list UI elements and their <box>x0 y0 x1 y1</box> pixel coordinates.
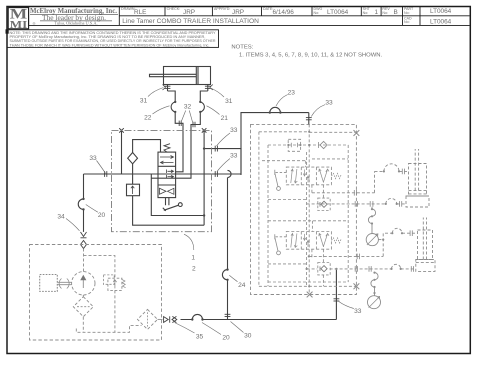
svg-text:B: B <box>394 9 398 16</box>
svg-text:CHECK:: CHECK: <box>167 7 181 11</box>
V1 bottom cell bowties <box>160 188 174 194</box>
fitting 31 left ticks <box>163 85 171 91</box>
V1 spring <box>164 144 170 152</box>
fitting 33e ticks <box>334 299 340 301</box>
valve V1 body <box>158 152 176 198</box>
port stub right <box>207 85 209 92</box>
QD 35 halves <box>164 316 177 322</box>
fitting 30 ticks <box>225 314 231 316</box>
enclosure right assembly outer (dashed) <box>251 124 357 294</box>
V1 left return drop <box>151 174 204 216</box>
wire X1 down <box>121 130 123 174</box>
CV1 to valve top <box>133 140 161 153</box>
coupler ticks right pair <box>193 122 195 127</box>
cylinder C-main rod <box>150 74 197 76</box>
wire 148.6 right <box>204 149 241 174</box>
valve RV-A body <box>286 167 331 185</box>
RV2 spring <box>122 280 126 288</box>
svg-text:32: 32 <box>184 104 192 111</box>
strainer F1 diamond <box>73 297 93 317</box>
svg-text:33: 33 <box>89 155 97 162</box>
V1 arrows top cell <box>160 156 174 165</box>
riser into right box <box>308 113 310 125</box>
svg-text:THAN THOSE FOR WHICH IT WAS FU: THAN THOSE FOR WHICH IT WAS FURNISHED WI… <box>10 43 210 47</box>
check box CB2 <box>318 263 330 275</box>
hop arc on return drop <box>228 170 232 177</box>
wire strainer down <box>82 317 84 333</box>
relief RV2 pilot loop <box>103 275 114 284</box>
svg-text:23: 23 <box>288 90 296 97</box>
wire left drop w/ coupler 22 loop <box>168 91 176 102</box>
svg-text:JRP: JRP <box>183 9 195 16</box>
pump P1 circle <box>72 272 95 295</box>
svg-text:LT0064: LT0064 <box>430 18 452 25</box>
S-hose down from B wire <box>371 207 373 209</box>
cylinder CYL2 <box>416 218 435 272</box>
svg-text:1: 1 <box>375 9 379 16</box>
check valve CV1 diamond <box>128 153 138 164</box>
cylinder CYL1 <box>406 149 429 207</box>
wire A-port out <box>312 192 375 194</box>
svg-text:33: 33 <box>325 100 333 107</box>
V1 center cell ticks <box>167 170 174 179</box>
wire to cyl1 rod port w/ hose loop <box>375 170 409 172</box>
corner X marks <box>307 130 360 297</box>
V1 stem <box>166 198 169 206</box>
svg-text:34: 34 <box>57 213 65 220</box>
RV-A spring <box>331 174 341 179</box>
fitting 31 right ticks <box>205 85 213 91</box>
return drop wire w/ hose 24 <box>227 178 229 270</box>
svg-text:1: 1 <box>191 255 195 262</box>
fitting 33c ticks <box>215 171 217 177</box>
P1 arrow <box>80 275 86 280</box>
bowtie X2 <box>202 128 207 132</box>
svg-text:No:: No: <box>314 11 320 15</box>
svg-text:31: 31 <box>225 98 233 105</box>
feed riser to top wire <box>241 113 309 175</box>
bottom right riser <box>335 269 337 319</box>
check box CB1 <box>318 198 330 210</box>
check valve V-line up <box>132 164 134 174</box>
cylinder C-main body <box>164 67 211 85</box>
wire qd34 to pump <box>83 249 85 272</box>
svg-text:1. ITEMS 3, 4, 5, 6, 7, 8, 9,: 1. ITEMS 3, 4, 5, 6, 7, 8, 9, 10, 11, & … <box>239 53 383 59</box>
port stub left <box>167 85 169 92</box>
relief RV2 box <box>108 278 122 290</box>
relief branch wire <box>84 256 115 279</box>
NOTE-BOX <box>7 30 219 48</box>
valve RV-B body <box>286 232 331 250</box>
TITLEBLOCK <box>8 7 469 29</box>
fitting 33a ticks <box>105 171 107 177</box>
svg-text:RLE: RLE <box>134 9 146 16</box>
motor M1 box <box>40 275 58 292</box>
hose 23 loop <box>270 107 281 112</box>
main pressure wire <box>84 173 242 175</box>
svg-text:MI: MI <box>10 19 28 31</box>
X2 drop wire <box>203 130 205 225</box>
RV-A out drop <box>311 185 313 193</box>
riser to cyl1 top <box>374 171 376 192</box>
RV-A arrows <box>291 169 329 183</box>
svg-text:JRP: JRP <box>232 9 244 16</box>
RV2 down wire <box>114 290 116 332</box>
svg-text:33: 33 <box>230 127 238 134</box>
wire right drop w/ coupler 21 loop <box>200 91 208 102</box>
enclosure main unit (dash-dot) <box>112 130 212 231</box>
svg-text:No:: No: <box>382 11 388 15</box>
RV-B lever <box>275 236 287 238</box>
svg-text:20: 20 <box>222 335 230 342</box>
enclosure pump unit (dashed) <box>30 245 162 341</box>
wire cyl2 bottom <box>307 268 415 270</box>
svg-text:22: 22 <box>144 115 152 122</box>
svg-text:33: 33 <box>354 308 362 315</box>
MMI logo <box>10 7 28 31</box>
svg-text:Line Tamer COMBO TRAILER INSTA: Line Tamer COMBO TRAILER INSTALLATION <box>122 18 259 25</box>
filter out wire <box>158 318 163 320</box>
svg-text:30: 30 <box>244 333 252 340</box>
RV1 down and tank loop <box>133 196 205 226</box>
cylinder C-main head divider <box>195 67 197 85</box>
svg-text:6/14/96: 6/14/96 <box>273 9 295 16</box>
wire B-port out <box>307 203 406 205</box>
wire down-left w/ hose 20 <box>83 174 85 199</box>
title row small labels <box>121 7 414 24</box>
RV-B out drops <box>311 249 313 257</box>
fitting 33b ticks <box>215 146 217 152</box>
svg-text:No:: No: <box>404 20 410 24</box>
svg-text:33: 33 <box>230 152 238 159</box>
wire pump-strainer <box>82 295 84 297</box>
svg-text:No:: No: <box>363 11 369 15</box>
svg-text:35: 35 <box>196 333 204 340</box>
QD 34 halves <box>81 232 87 249</box>
wire tank bottom <box>76 325 141 332</box>
svg-text:24: 24 <box>238 282 246 289</box>
flow control FC2 <box>368 296 381 309</box>
svg-text:No:: No: <box>404 11 410 15</box>
svg-text:APPRV'D:: APPRV'D: <box>214 7 230 11</box>
return filter F2 diamond <box>138 309 158 329</box>
svg-text:20: 20 <box>98 212 106 219</box>
node dots couplers <box>174 101 202 113</box>
fitting 33d ticks <box>306 118 312 120</box>
svg-text:2: 2 <box>192 266 196 273</box>
RV-B arrows <box>291 233 329 247</box>
bowtie X1 on enclosure <box>119 128 124 132</box>
gauge-port box <box>288 139 300 151</box>
NOTES text <box>231 45 382 59</box>
relief RV1 drop <box>132 174 134 184</box>
svg-text:31: 31 <box>140 97 148 104</box>
RV1 arrow <box>131 186 134 194</box>
inner frame lines <box>309 131 356 133</box>
bottom return wire <box>181 319 337 321</box>
coupler ticks left pair <box>179 121 181 126</box>
V1 lever <box>164 205 179 210</box>
check valve CV2 diamond <box>320 141 327 148</box>
svg-text:21: 21 <box>221 115 229 122</box>
coupling arcs <box>57 282 72 284</box>
RV-A lever <box>275 171 287 173</box>
flow control FC1 <box>366 234 378 246</box>
relief RV1 box <box>127 184 140 196</box>
svg-text:LT0064: LT0064 <box>430 8 452 15</box>
svg-text:®: ® <box>32 21 35 26</box>
svg-text:LT0064: LT0064 <box>327 9 349 16</box>
wire FC1 to cyl2 top <box>378 239 383 241</box>
svg-text:NOTES:: NOTES: <box>231 45 253 51</box>
RV-B spring <box>331 238 341 243</box>
S-hose down to FC2 <box>371 273 378 296</box>
